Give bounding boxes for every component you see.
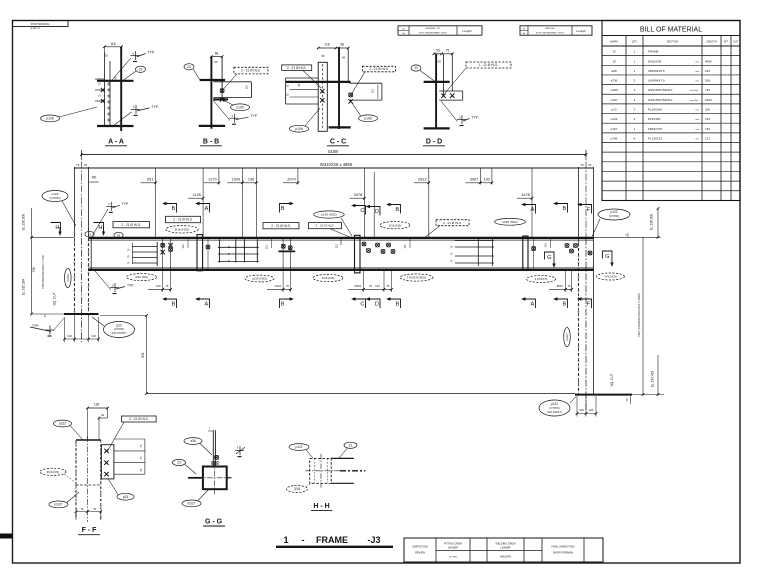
svg-text:23: 23 [117, 233, 121, 237]
svg-text:TYP.: TYP. [147, 51, 154, 55]
F-F gusset bolts [104, 449, 108, 453]
check table 1 [398, 26, 482, 35]
B-B bolt line vertical [221, 57, 223, 99]
C-C hole box left [282, 65, 312, 71]
svg-text:B: B [563, 206, 567, 212]
C-C top flange line [286, 81, 351, 83]
svg-text:115: 115 [370, 88, 374, 93]
svg-text:76: 76 [80, 507, 84, 511]
svg-text:3 PL6X76: 3 PL6X76 [604, 275, 617, 279]
lower running dimensions [202, 168, 204, 200]
F-F dim 40 [99, 417, 108, 419]
svg-text:(NO PAINT): (NO PAINT) [547, 410, 562, 414]
C-C bolts left plate [320, 89, 324, 102]
left column base extension lines [73, 315, 75, 342]
left base line extended [32, 313, 65, 315]
svg-text:p122: p122 [295, 445, 302, 449]
svg-text:W310X28: W310X28 [648, 59, 662, 63]
left column right face dashed [88, 238, 90, 314]
svg-text:a08: a08 [611, 69, 616, 73]
svg-text:B: B [281, 302, 285, 308]
H-H centerline thick right [340, 470, 365, 472]
svg-text:1567 (HSS152X152X8.0 x 1560): 1567 (HSS152X152X8.0 x 1560) [637, 293, 641, 337]
detail C-C section view [282, 43, 396, 146]
svg-text:WELDING CREW: WELDING CREW [496, 543, 517, 546]
svg-text:D: D [375, 209, 379, 215]
svg-text:G: G [547, 255, 551, 261]
right column left face dashed [578, 238, 580, 395]
right column weld dots [578, 241, 579, 242]
svg-text:By: By [523, 33, 525, 35]
svg-text:FB152X76: FB152X76 [648, 127, 663, 131]
svg-text:2074: 2074 [287, 178, 295, 182]
svg-text:EL.315.264: EL.315.264 [22, 279, 26, 296]
lower section cut flags [162, 297, 177, 308]
detail G-G [173, 427, 245, 527]
B-B seat plate [213, 98, 228, 100]
svg-text:BILL OF MATERIAL: BILL OF MATERIAL [640, 27, 702, 34]
D-D dims 53 75 [434, 53, 442, 55]
G-G oval 23 [173, 459, 186, 465]
A-A dim 118 [104, 46, 121, 48]
weld symbol above beam left [106, 202, 119, 213]
left margin EL.316.000 dim [31, 208, 33, 238]
right column right face [593, 238, 595, 395]
dashed oval 3PL6X76 below mid [400, 274, 433, 281]
A-A oval p106 [41, 115, 60, 122]
splice 2 bolts cluster [362, 242, 366, 246]
right column centerline upper [585, 150, 587, 238]
svg-text:3/16 (NS): 3/16 (NS) [47, 470, 60, 474]
svg-text:23: 23 [349, 443, 353, 447]
svg-text:m326: m326 [610, 88, 618, 92]
right base extension lines [576, 396, 578, 417]
svg-text:C: C [360, 302, 364, 308]
svg-text:118: 118 [110, 42, 115, 46]
svg-text:QTY: QTY [632, 40, 638, 44]
svg-text:736: 736 [32, 267, 36, 273]
detail A-A section view [41, 42, 159, 146]
svg-text:Length: Length [462, 29, 472, 33]
svg-text:m327: m327 [55, 503, 63, 507]
svg-text:152: 152 [705, 117, 710, 121]
svg-text:D - D: D - D [426, 139, 442, 146]
C-C oval p106 right [359, 115, 378, 122]
svg-text:3/16: 3/16 [294, 487, 300, 491]
svg-text:F: F [587, 207, 591, 213]
svg-text:191: 191 [375, 284, 380, 288]
C-C left beam outline [286, 77, 319, 79]
left column centerline upper [80, 150, 82, 237]
svg-text:PL10X200: PL10X200 [648, 108, 662, 112]
top-left revision box [13, 21, 69, 27]
svg-text:131: 131 [705, 136, 710, 140]
svg-text:65: 65 [342, 56, 346, 60]
svg-text:100: 100 [91, 334, 96, 338]
svg-text:3/16 (NS): 3/16 (NS) [322, 276, 335, 280]
svg-text:115: 115 [265, 244, 269, 249]
svg-text:mm: mm [695, 110, 699, 112]
F-F dashed oval 3/16 NS [40, 468, 66, 475]
svg-text:23: 23 [177, 461, 181, 465]
svg-text:C - C: C - C [330, 139, 346, 146]
svg-text:118: 118 [324, 43, 329, 47]
stiffener centerline extensions [202, 200, 204, 238]
svg-text:75: 75 [369, 284, 373, 288]
svg-text:1: 1 [283, 535, 288, 545]
svg-text:B - B: B - B [203, 139, 219, 146]
svg-text:-J3: -J3 [367, 535, 380, 545]
hole box labels above beam [113, 222, 150, 228]
svg-text:76: 76 [93, 507, 97, 511]
G-G oval a36 [184, 438, 202, 445]
svg-text:p136 (NS2): p136 (NS2) [252, 277, 267, 281]
dashed oval 3/16 NS mid-left below [313, 274, 343, 281]
svg-text:FITTER: FITTER [449, 557, 457, 559]
svg-text:p23: p23 [123, 495, 129, 499]
svg-text:SHOP DRAWING: SHOP DRAWING [31, 23, 50, 26]
svg-text:1270: 1270 [208, 178, 216, 182]
svg-text:m327: m327 [188, 502, 196, 506]
svg-text:G: G [605, 254, 609, 260]
F-F column centerline [87, 436, 89, 522]
F-F dim 136 [88, 407, 108, 409]
A-A weld symbol top [131, 51, 146, 62]
B-B dashed hole box [234, 67, 268, 74]
svg-text:4478: 4478 [521, 193, 529, 197]
A-A bolt dots on plate [108, 83, 110, 85]
dashed oval right below beam [527, 276, 556, 283]
svg-text:WELDING: WELDING [545, 28, 555, 30]
right column centerline [585, 238, 587, 410]
splice plate 1 [197, 235, 203, 271]
svg-text:FINAL INSPECTION: FINAL INSPECTION [552, 546, 575, 549]
svg-text:75: 75 [386, 284, 390, 288]
svg-text:5/16 (NS2): 5/16 (NS2) [175, 227, 190, 231]
oval p122 CTRD top right [598, 209, 630, 220]
svg-text:J3: J3 [612, 50, 616, 54]
oval p23 CTRD NO PAINT [104, 322, 135, 338]
svg-text:2 - 21 Ø HLS.: 2 - 21 Ø HLS. [129, 417, 149, 421]
mid stiffener tick [340, 238, 342, 245]
B-B bolt symbols [220, 89, 224, 93]
F-F column left edge dashed [75, 440, 77, 518]
svg-text:CUT: CUT [733, 40, 739, 44]
D-D bottom flange [424, 127, 450, 129]
H-H oval 23 [344, 442, 357, 448]
right column extension verticals above beam [578, 167, 580, 238]
svg-text:LENGTH: LENGTH [706, 40, 717, 44]
svg-text:PL6X152: PL6X152 [648, 117, 661, 121]
D-D oval 23 [411, 65, 421, 71]
G-G bolt [215, 455, 219, 459]
G-G weld mark [211, 462, 219, 464]
svg-text:(CTR'D): (CTR'D) [609, 214, 619, 218]
svg-text:136: 136 [94, 403, 100, 407]
F-F oval m327 [49, 501, 68, 508]
svg-text:23: 23 [187, 65, 191, 69]
svg-text:2 - 21 Ø HLS.: 2 - 21 Ø HLS. [369, 67, 389, 71]
F-F gauge lines [114, 438, 145, 440]
splice 1 bolt [206, 245, 210, 249]
beam bottom flange inner line [89, 267, 594, 269]
m327 rotated oval right column [564, 328, 571, 347]
D-D weld symbol [457, 115, 470, 126]
svg-text:A: A [531, 302, 535, 308]
svg-text:740: 740 [155, 284, 160, 288]
svg-text:75: 75 [286, 284, 290, 288]
svg-text:2 - 21 Ø HLS.: 2 - 21 Ø HLS. [271, 224, 291, 228]
B-B web vertical [210, 57, 212, 129]
title underline [276, 546, 393, 548]
svg-text:SQ. CUT: SQ. CUT [610, 373, 614, 386]
A-A gauge bolts [101, 88, 105, 103]
svg-text:1 - 21 Ø HLS.: 1 - 21 Ø HLS. [479, 63, 499, 67]
beam top flange inner line [89, 239, 594, 241]
D-D top flange [424, 81, 450, 83]
svg-text:2639: 2639 [354, 284, 361, 288]
bolt group 1 verticals [162, 238, 164, 270]
svg-text:1910: 1910 [274, 284, 281, 288]
B-B dim 68 [211, 56, 222, 58]
svg-text:W310X28 x 4956: W310X28 x 4956 [320, 162, 353, 167]
svg-text:a36: a36 [190, 439, 196, 443]
svg-text:SECTION: SECTION [667, 40, 679, 44]
D-D bolt verticals [443, 54, 445, 95]
svg-text:mm: mm [695, 129, 699, 131]
dim 100 100 right base [577, 413, 596, 415]
dim 851 vertical [146, 316, 148, 394]
column length dim right 1567 [642, 237, 644, 394]
A-A bolt gauge plate [109, 61, 111, 126]
C-C oval p106 left [290, 125, 309, 132]
svg-text:EL.316.000: EL.316.000 [650, 214, 654, 231]
svg-text:REVIEW: REVIEW [415, 552, 426, 555]
svg-text:2678: 2678 [354, 193, 362, 197]
svg-text:LEADER: LEADER [448, 547, 458, 550]
svg-text:B: B [563, 302, 567, 308]
B-B beam bottom line [213, 97, 251, 99]
G-G left stub [188, 477, 203, 479]
svg-text:H: H [55, 225, 59, 231]
svg-text:76: 76 [76, 163, 80, 167]
G flag right of column [603, 251, 614, 267]
F-F column mid dashed line [76, 484, 101, 486]
svg-text:B: B [172, 302, 176, 308]
svg-text:L89X64X9.5: L89X64X9.5 [648, 69, 665, 73]
G-G hss square [203, 467, 227, 490]
svg-text:EL.316.000: EL.316.000 [22, 214, 26, 231]
main elevation dimension line 5188 [81, 154, 586, 156]
m326 rotated oval [65, 269, 72, 288]
svg-text:719: 719 [705, 88, 710, 92]
H-H horizontal centerline [305, 470, 340, 472]
right column base plate line [575, 394, 632, 396]
beam top flange [89, 237, 594, 240]
svg-text:p123: p123 [611, 117, 618, 121]
svg-text:mm,SqC.: mm,SqC. [690, 90, 700, 92]
svg-text:60: 60 [438, 60, 442, 64]
svg-text:RD: RD [92, 175, 97, 179]
svg-text:(CTR'D): (CTR'D) [50, 196, 61, 200]
svg-text:D: D [375, 302, 379, 308]
A-A angle vertical [103, 52, 105, 127]
svg-text:a736: a736 [611, 79, 618, 83]
svg-text:WELDER: WELDER [500, 556, 511, 559]
BOM row lines [602, 55, 740, 57]
svg-text:2 - 21 Ø HLS.: 2 - 21 Ø HLS. [287, 66, 307, 70]
C-C dim 118 68 [318, 47, 336, 49]
G-G right stub [227, 477, 231, 479]
dashed oval 3/16 NS below group1 [127, 274, 157, 281]
detail H-H [287, 442, 366, 510]
svg-text:F: F [587, 302, 591, 308]
svg-text:1529: 1529 [232, 178, 240, 182]
upper section cut flags [162, 202, 177, 213]
svg-text:mm,SqC.: mm,SqC. [690, 100, 700, 102]
EL.316.000 right dim [657, 208, 659, 237]
F-F dim 76 76 [75, 513, 77, 520]
svg-text:3967: 3967 [470, 178, 478, 182]
F-F gusset plate [101, 445, 114, 479]
C-C left gauge lines [290, 89, 319, 91]
cluster verticals below [363, 271, 365, 292]
svg-text:2 - 21 Ø HLS.: 2 - 21 Ø HLS. [122, 223, 142, 227]
svg-text:53: 53 [436, 49, 440, 53]
svg-text:3 PL6X76: 3 PL6X76 [535, 277, 548, 281]
svg-text:F - F: F - F [82, 527, 97, 534]
svg-text:p106: p106 [364, 116, 372, 120]
C-C splice plate rect [318, 62, 327, 131]
svg-text:3 PL6X76 (NS2): 3 PL6X76 (NS2) [407, 275, 427, 279]
svg-text:23: 23 [414, 66, 418, 70]
G-G oval m327 [182, 500, 201, 507]
svg-text:(FOR ONE ASSEMBLY ONLY): (FOR ONE ASSEMBLY ONLY) [419, 31, 448, 34]
left column centerline [80, 238, 82, 342]
B-B beam top line [213, 81, 251, 83]
svg-text:A: A [205, 302, 209, 308]
svg-text:740: 740 [705, 127, 710, 131]
splice plate 2 [355, 235, 361, 273]
bill of material table [602, 21, 740, 201]
A-A weld leader top [112, 58, 131, 80]
hole box label 2 [166, 216, 201, 222]
C-C right bolt vertical [347, 48, 349, 82]
svg-text:MT: MT [724, 40, 728, 44]
oval p122 CTRD NO PAINT right base [539, 400, 570, 416]
EL.314.433 right [657, 355, 659, 395]
ladder cleat group 3 [455, 240, 494, 242]
svg-text:115: 115 [403, 244, 407, 249]
F-F hole box [122, 416, 157, 422]
svg-text:35: 35 [321, 54, 325, 58]
bolt group 2 [282, 238, 284, 270]
svg-text:PL13X133: PL13X133 [648, 136, 662, 140]
dim 736 left [31, 237, 33, 314]
svg-text:By: By [402, 33, 404, 35]
H-H oval p122 [289, 444, 309, 451]
svg-text:115: 115 [335, 243, 339, 248]
svg-text:306: 306 [705, 79, 710, 83]
G-G weld symbol right [235, 446, 244, 457]
dashed oval right of column [597, 273, 625, 280]
D-D web vertical [435, 54, 437, 129]
weld symbol below beam left [110, 283, 125, 294]
10 dim right base [630, 396, 632, 404]
oval 23 labels near beam left [85, 231, 94, 237]
svg-text:100: 100 [67, 334, 72, 338]
H flag left [51, 223, 61, 232]
G-G centerlines [214, 461, 216, 495]
bolt group 2 seat bar [279, 250, 296, 252]
svg-text:130: 130 [483, 178, 489, 182]
svg-text:p136 (NS2): p136 (NS2) [502, 220, 517, 224]
B-B top flange [200, 79, 225, 81]
svg-text:TYP.: TYP. [151, 105, 158, 109]
F-F column right edge dashed [100, 440, 102, 518]
svg-text:200: 200 [705, 108, 710, 112]
dim 100 100 left base [64, 338, 98, 340]
G flag left of column [545, 252, 556, 268]
svg-text:HSS152X152X8.0 x 720: HSS152X152X8.0 x 720 [41, 255, 45, 289]
check table 2 [520, 26, 592, 35]
svg-text:115: 115 [544, 242, 548, 247]
A-A oval 23 [136, 66, 146, 72]
A-A bottom flange [97, 125, 134, 127]
A-A cleat gauge lines [95, 78, 104, 80]
H-H dashed oval 3/16 [287, 486, 308, 493]
base level line long [147, 393, 576, 395]
svg-text:m327: m327 [565, 333, 569, 341]
svg-text:m326: m326 [66, 274, 70, 282]
left column base plate line [64, 313, 99, 315]
F-F oval p122 [54, 420, 72, 427]
svg-text:INSPECTION: INSPECTION [412, 546, 427, 549]
F-F column top line [76, 439, 101, 441]
svg-text:75: 75 [165, 284, 169, 288]
C-C hole box right dashed [362, 66, 395, 72]
svg-text:H: H [98, 225, 102, 231]
svg-text:40: 40 [101, 413, 105, 417]
svg-text:TYP.: TYP. [32, 324, 39, 328]
dim 740 75 below [162, 271, 164, 292]
svg-text:4956: 4956 [705, 59, 712, 63]
svg-text:A: A [531, 207, 535, 213]
svg-text:TYP.: TYP. [471, 116, 478, 120]
left edge centering mark [0, 534, 13, 539]
svg-text:75: 75 [446, 49, 450, 53]
bolt right of splice 3 [532, 247, 536, 251]
svg-text:1560: 1560 [705, 98, 712, 102]
svg-text:B: B [396, 302, 400, 308]
bolt cluster right [565, 244, 569, 248]
svg-text:mm: mm [695, 61, 699, 63]
svg-text:2 - 21 Ø HLS.: 2 - 21 Ø HLS. [173, 218, 193, 222]
svg-text:p122: p122 [59, 422, 66, 426]
svg-text:5188: 5188 [328, 149, 338, 154]
left column left face dashed [73, 238, 75, 314]
svg-text:p706: p706 [611, 136, 618, 140]
B-B oval 23 [184, 64, 194, 70]
dashed oval p136 NS2 below group2 [245, 275, 274, 282]
svg-text:225: 225 [705, 69, 710, 73]
svg-text:A-A0 r-0: A-A0 r-0 [31, 27, 41, 30]
svg-text:76: 76 [580, 163, 584, 167]
svg-text:p106: p106 [236, 105, 244, 109]
inspection table [404, 538, 603, 562]
svg-text:LEADER: LEADER [500, 547, 510, 550]
A-A top flange [97, 80, 134, 82]
